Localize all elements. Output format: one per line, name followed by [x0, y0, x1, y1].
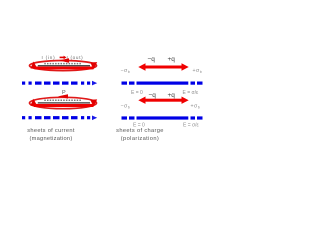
dipole arrow D1 (red double arrow) [138, 63, 188, 70]
svg-text:−q: −q [149, 92, 157, 99]
sheet line 1 (black) [38, 65, 90, 67]
svg-text:+q: +q [168, 92, 176, 99]
dipole row 1 (small dark dashes) [44, 63, 82, 65]
current sheet 1 (thick red) [35, 67, 94, 70]
loop L1 top arrow [59, 58, 69, 63]
current loop L2 (red ellipse) [30, 97, 97, 108]
B field line 1 left (blue dashed) [22, 81, 97, 86]
B field line 2 left (blue dashed) [22, 116, 97, 121]
svg-text:E = σ/ε: E = σ/ε [183, 123, 200, 129]
red mini arrow in label row [60, 56, 67, 60]
dipole arrow D2 (red double arrow) [138, 97, 188, 104]
svg-text:sheets of current: sheets of current [27, 128, 75, 134]
svg-text:−q: −q [148, 56, 156, 63]
E field line 2 right (blue) [122, 116, 203, 119]
svg-text:+q: +q [168, 56, 176, 63]
loop L2 arrowhead left [30, 99, 37, 106]
svg-text:I (out): I (out) [67, 55, 84, 60]
loop L1 arrowhead right [90, 62, 97, 69]
current sheet 2 (thick red) [34, 104, 94, 107]
loop L2 top arrow [58, 94, 68, 98]
svg-text:(magnetization): (magnetization) [30, 136, 73, 142]
svg-text:(polarization): (polarization) [121, 136, 159, 142]
current loop L1 (red ellipse) [30, 61, 97, 71]
label above loop 1 [42, 55, 84, 60]
loop L1 arrowhead left [31, 62, 38, 69]
svg-text:E = σ/ε: E = σ/ε [183, 90, 200, 96]
dipole row 2 (small dark dashes) [44, 99, 82, 101]
loop L2 arrowhead right [90, 99, 97, 106]
E field line 1 right (blue) [122, 82, 203, 85]
svg-text:E = 0: E = 0 [131, 90, 143, 96]
svg-text:I (in): I (in) [42, 55, 56, 60]
svg-text:sheets of charge: sheets of charge [116, 128, 164, 134]
sheet line 2 (black) [38, 102, 90, 104]
